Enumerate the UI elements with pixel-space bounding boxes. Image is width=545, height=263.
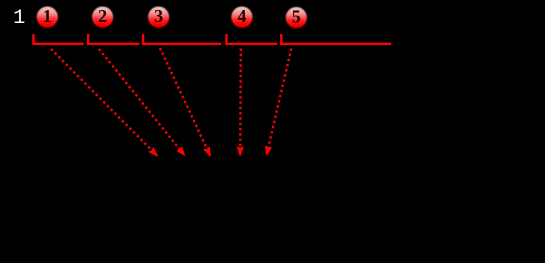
svg-text:3: 3 [154, 6, 163, 26]
svg-text:4: 4 [237, 6, 246, 26]
svg-text:1: 1 [43, 6, 52, 26]
ball 4 [231, 6, 252, 28]
svg-text:2: 2 [98, 6, 107, 26]
arrow 1 [51, 49, 157, 156]
ball 1 [37, 6, 58, 28]
bracket 1 [34, 34, 84, 44]
ball 5 [286, 6, 307, 28]
svg-text:1: 1 [13, 7, 25, 30]
arrow 3 [160, 48, 210, 156]
ball 3 [148, 6, 169, 28]
bracket 3 [143, 34, 221, 44]
bracket 5 [281, 34, 391, 44]
ball 2 [92, 6, 113, 28]
arrow 5 [267, 49, 292, 156]
arrow 2 [99, 49, 185, 156]
bracket 2 [88, 34, 139, 44]
svg-text:5: 5 [292, 6, 301, 26]
arrow 4 [239, 49, 242, 156]
bracket 4 [227, 34, 278, 44]
